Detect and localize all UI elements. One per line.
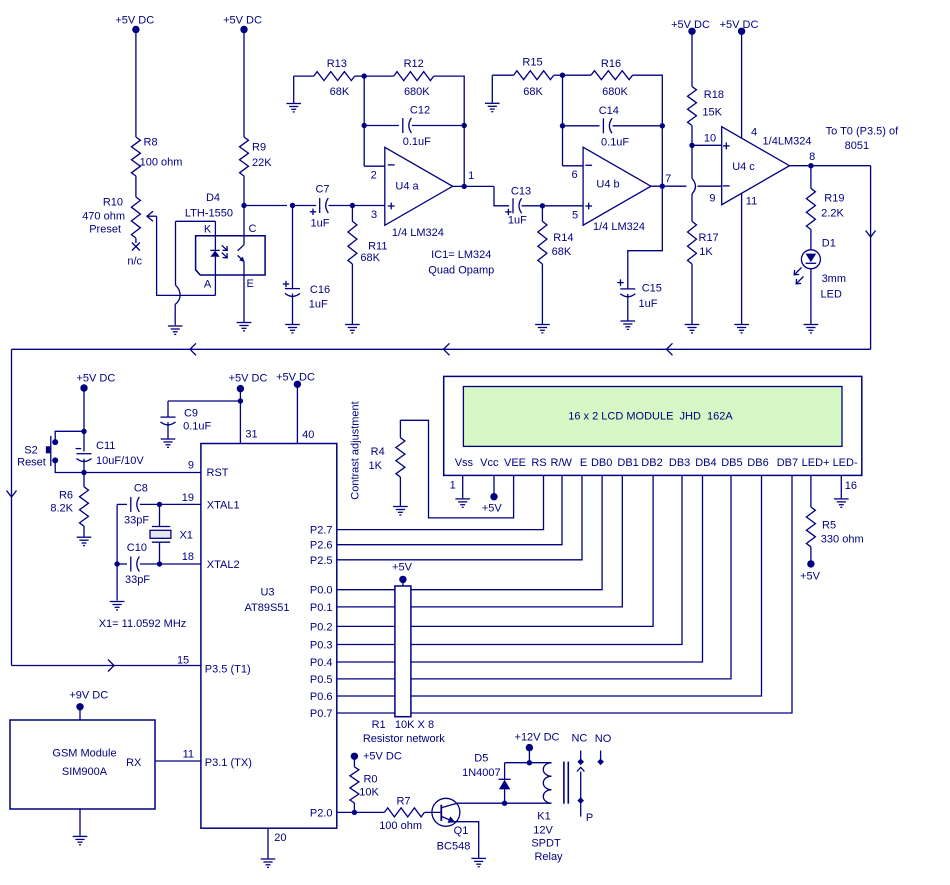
svg-text:+5V: +5V (800, 571, 821, 583)
relay K1 coil bottom wire (505, 802, 552, 804)
svg-text:U4 b: U4 b (596, 179, 619, 191)
ground C8/C10 (110, 601, 125, 603)
wire C8 left down to ground (116, 504, 118, 600)
D4 phototransistor (243, 206, 245, 245)
svg-text:P2.0: P2.0 (310, 807, 333, 819)
svg-text:68K: 68K (552, 246, 572, 258)
wire GSM RX to P3.1 (155, 760, 201, 762)
junction P2.0/R0 (352, 810, 357, 815)
wire DB1 to P0.1 (337, 475, 623, 607)
op-amp U4b (583, 147, 651, 225)
transistor Q1 (432, 798, 460, 826)
D4 outer loop top (176, 220, 216, 222)
wire DB4 to P0.4 (337, 475, 703, 662)
svg-text:4: 4 (751, 126, 757, 138)
ground GSM (73, 835, 88, 837)
svg-text:1uF: 1uF (639, 298, 658, 310)
capacitor C14 (563, 125, 600, 127)
wire C14 right down to output (661, 126, 663, 186)
svg-text:DB1: DB1 (617, 457, 638, 469)
svg-text:R5: R5 (822, 519, 836, 531)
svg-text:68K: 68K (360, 252, 380, 264)
Q1 collector wire (457, 802, 505, 804)
svg-text:1K: 1K (699, 246, 713, 258)
svg-text:R10: R10 (103, 197, 123, 209)
resistor R9 (240, 137, 249, 176)
U4a output wire (453, 185, 494, 187)
svg-text:SIM900A: SIM900A (62, 766, 108, 778)
svg-text:680K: 680K (602, 86, 628, 98)
wire C16 to C7 (293, 205, 317, 207)
svg-text:R8: R8 (144, 137, 158, 149)
svg-text:+5V DC: +5V DC (363, 751, 402, 763)
wire S2 bottom to RST node (55, 460, 84, 472)
svg-text:RX: RX (126, 757, 142, 769)
ground Q1 emitter (471, 857, 486, 859)
svg-text:D5: D5 (474, 753, 488, 765)
wire to switch S2 top (55, 431, 84, 442)
wire wiper to D4 loop (157, 216, 216, 295)
svg-text:DB7: DB7 (777, 457, 798, 469)
wire C7 to R11 node (329, 205, 353, 207)
wire GSM box to ground (79, 809, 81, 836)
svg-text:C10: C10 (127, 542, 147, 554)
D4 emitter wire E (243, 262, 245, 323)
resistor R8 (131, 137, 140, 176)
wire RST node to U3 pin9 (84, 472, 201, 474)
wire +5V to pin40 (296, 384, 298, 443)
wire RS to P2.7 (337, 475, 544, 529)
wire R4 to ground (399, 477, 401, 506)
svg-text:P0.3: P0.3 (310, 640, 333, 652)
wire +9V to GSM box (79, 707, 81, 720)
svg-text:P0.4: P0.4 (310, 657, 333, 669)
svg-text:C16: C16 (310, 284, 330, 296)
svg-text:DB6: DB6 (747, 457, 768, 469)
U4b output junction (660, 184, 665, 189)
wire U4c output feedback right side down (870, 166, 872, 350)
wire R8 to R10 (135, 176, 137, 197)
svg-text:+5V: +5V (482, 503, 503, 515)
svg-text:33pF: 33pF (124, 514, 149, 526)
svg-text:P0.7: P0.7 (310, 708, 333, 720)
svg-text:6: 6 (571, 169, 577, 181)
wire DB2 to P0.2 (337, 475, 653, 626)
svg-text:0.1uF: 0.1uF (403, 136, 431, 148)
svg-text:P0.6: P0.6 (310, 691, 333, 703)
wire pin7 to U4c inverting input with hop (651, 185, 687, 187)
svg-text:+5V DC: +5V DC (115, 15, 154, 27)
capacitor C16 (292, 206, 294, 289)
wire R5 to +5V (810, 547, 812, 564)
svg-text:R6: R6 (59, 490, 73, 502)
junction C12 right (462, 123, 467, 128)
svg-text:K: K (204, 224, 212, 236)
svg-text:LED: LED (820, 288, 841, 300)
svg-text:R15: R15 (522, 57, 542, 69)
svg-text:9: 9 (188, 459, 194, 471)
svg-text:P2.6: P2.6 (310, 540, 333, 552)
svg-text:R17: R17 (699, 232, 719, 244)
ground C15 (621, 320, 636, 322)
resistor R17 (688, 221, 697, 264)
svg-text:2: 2 (371, 169, 377, 181)
svg-text:16: 16 (845, 480, 857, 492)
svg-text:C8: C8 (134, 482, 148, 494)
wire +12V to coil top (528, 748, 530, 763)
junction R18/R17 node (689, 143, 694, 148)
svg-text:R11: R11 (368, 240, 387, 252)
junction XTAL2 (157, 561, 162, 566)
svg-text:3mm: 3mm (822, 273, 846, 285)
svg-text:10K: 10K (359, 786, 379, 798)
svg-text:330 ohm: 330 ohm (821, 534, 864, 546)
LCD LED+ wire (810, 475, 812, 507)
svg-text:40: 40 (302, 429, 314, 441)
svg-text:10uF/10V: 10uF/10V (96, 455, 144, 467)
junction RST node (81, 470, 86, 475)
svg-text:U3: U3 (260, 586, 274, 598)
svg-text:P: P (586, 812, 593, 824)
svg-text:68K: 68K (523, 86, 543, 98)
svg-text:IC1= LM324: IC1= LM324 (431, 249, 491, 261)
resistor R7 (384, 808, 424, 817)
wire into P3.5 pin 15 (12, 665, 201, 667)
svg-text:Preset: Preset (89, 224, 121, 236)
svg-text:12V: 12V (533, 824, 553, 836)
resistor R10 preset (131, 197, 140, 238)
svg-text:D4: D4 (206, 192, 220, 204)
wire inverting input net U4b (562, 75, 564, 166)
relay core bars (563, 762, 565, 804)
ground D4 emitter (237, 322, 252, 324)
wire node to C16 (244, 205, 287, 207)
n/c X mark (132, 243, 140, 251)
svg-text:S2: S2 (24, 445, 37, 457)
svg-text:680K: 680K (404, 86, 430, 98)
ground pin20 (261, 858, 276, 860)
svg-text:Vcc: Vcc (480, 457, 499, 469)
capacitor C7 (319, 198, 321, 213)
junction R13/R12 (355, 75, 365, 77)
svg-text:R0: R0 (363, 774, 377, 786)
wire R16 right (633, 75, 663, 126)
wire R0 to P2.0 node (353, 803, 355, 812)
svg-text:0.1uF: 0.1uF (601, 137, 629, 149)
svg-text:K1: K1 (537, 810, 550, 822)
svg-text:1uF: 1uF (309, 299, 328, 311)
ground D1 (804, 324, 819, 326)
resistor R19 (810, 166, 812, 189)
svg-text:+5V: +5V (392, 562, 413, 574)
capacitor C9 branch (168, 400, 240, 402)
resistor R4 (396, 438, 405, 477)
svg-text:1: 1 (468, 170, 474, 182)
svg-text:P3.5 (T1): P3.5 (T1) (205, 663, 251, 675)
junction XTAL1 (157, 502, 162, 507)
wire node down with hop over pin7 wire (691, 145, 693, 178)
resistor R0 (353, 756, 355, 767)
svg-text:Relay: Relay (534, 851, 563, 863)
resistor R13 (294, 75, 314, 77)
junction C12 left (362, 123, 367, 128)
resistor R5 (806, 507, 815, 547)
wire R12 right (434, 76, 465, 125)
ground R15 (485, 102, 500, 104)
svg-text:5: 5 (572, 210, 578, 222)
svg-text:7: 7 (665, 173, 671, 185)
wire +5V to pin31 (239, 389, 241, 444)
svg-text:+5V DC: +5V DC (76, 372, 115, 384)
U4c pin11 wire to ground (741, 194, 743, 325)
svg-text:1/4LM324: 1/4LM324 (763, 135, 812, 147)
Q1 emitter wire to ground (454, 822, 479, 858)
junction +12V node (527, 760, 532, 765)
ground C9 (161, 438, 176, 440)
svg-text:9: 9 (709, 193, 715, 205)
svg-text:C: C (249, 223, 257, 235)
ground R4 (393, 506, 408, 508)
svg-text:11: 11 (746, 196, 757, 208)
U4c output wire (790, 165, 871, 167)
svg-text:11: 11 (183, 748, 194, 760)
svg-text:16 x 2 LCD MODULE JHD 162A: 16 x 2 LCD MODULE JHD 162A (568, 411, 733, 423)
wire node to U4b pin5 (542, 205, 583, 207)
svg-text:DB5: DB5 (721, 457, 742, 469)
wire DB7 to P0.7 (337, 475, 792, 713)
ground R11 (345, 324, 360, 326)
wire C15 branch (628, 186, 663, 288)
resistor R18 (688, 87, 697, 126)
wire C12 right to output node (463, 126, 465, 187)
svg-text:n/c: n/c (127, 256, 142, 268)
wire DB0 to P0.0 (337, 475, 602, 589)
ground U4c pin11 (734, 324, 749, 326)
svg-text:10K X 8: 10K X 8 (395, 719, 434, 731)
LCD module box (444, 376, 862, 475)
svg-text:RS: RS (531, 457, 546, 469)
svg-text:19: 19 (182, 492, 194, 504)
LCD green screen (463, 387, 842, 447)
junction R11 top (350, 203, 355, 208)
svg-text:P3.1 (TX): P3.1 (TX) (205, 757, 252, 769)
svg-text:1/4 LM324: 1/4 LM324 (392, 227, 444, 239)
D4 loop left wire with crossover wiggle (175, 221, 177, 285)
svg-text:P2.5: P2.5 (310, 555, 333, 567)
svg-text:XTAL1: XTAL1 (207, 500, 240, 512)
optocoupler D4 body (196, 236, 266, 275)
wire P2.0 (337, 811, 385, 813)
wire R/W to P2.6 (337, 475, 562, 544)
resistor R11 (351, 206, 353, 222)
D1 light arrows (795, 268, 802, 275)
svg-text:15: 15 (177, 654, 189, 666)
svg-text:1N4007: 1N4007 (462, 767, 501, 779)
svg-text:C15: C15 (642, 283, 662, 295)
wire R9 to node (243, 176, 245, 206)
relay K1 coil (543, 763, 551, 804)
svg-text:1K: 1K (369, 460, 383, 472)
svg-text:NO: NO (595, 733, 612, 745)
ground R14 (535, 324, 550, 326)
wire R17 to ground (691, 264, 693, 324)
svg-text:8: 8 (809, 151, 815, 163)
junction D5 anode (502, 801, 507, 806)
R1 +5V pin (399, 576, 406, 583)
capacitor C13 (512, 198, 514, 213)
svg-text:DB2: DB2 (641, 457, 662, 469)
svg-text:+5V DC: +5V DC (223, 15, 262, 27)
svg-text:3: 3 (371, 209, 377, 221)
LCD LED- to ground (840, 475, 842, 498)
svg-text:C12: C12 (410, 105, 430, 117)
junction C11 top (81, 429, 86, 434)
D4 light arrows (222, 245, 227, 250)
svg-text:C13: C13 (511, 185, 531, 197)
GSM module box (10, 720, 155, 809)
svg-text:SPDT: SPDT (531, 837, 561, 849)
junction R14 top (540, 203, 545, 208)
resistor R6 (83, 473, 85, 487)
capacitor C10 (117, 563, 127, 565)
svg-text:C9: C9 (184, 408, 198, 420)
capacitor C15 (620, 288, 635, 290)
junction C14 left (560, 123, 565, 128)
wire R11 to ground (351, 264, 353, 324)
wire DB5 to P0.5 (337, 475, 731, 679)
svg-text:1uF: 1uF (508, 215, 527, 227)
svg-text:P0.2: P0.2 (310, 621, 333, 633)
svg-text:1uF: 1uF (311, 218, 330, 230)
LED D1 (801, 250, 820, 269)
svg-text:0.1uF: 0.1uF (183, 420, 211, 432)
wire R18 to node (691, 126, 693, 146)
svg-text:R9: R9 (252, 142, 266, 154)
D4 LED cathode wire K (214, 221, 216, 250)
svg-text:DB4: DB4 (695, 457, 716, 469)
svg-text:BC548: BC548 (437, 841, 471, 853)
svg-text:22K: 22K (252, 157, 272, 169)
svg-text:R14: R14 (553, 232, 573, 244)
wire +5V to U4c pin4 (741, 31, 743, 138)
svg-text:C7: C7 (315, 183, 329, 195)
svg-text:1: 1 (450, 480, 456, 492)
ground C16 (285, 324, 300, 326)
op-amp U4c (722, 127, 790, 205)
svg-text:DB3: DB3 (669, 457, 690, 469)
microcontroller U3 box (201, 444, 337, 829)
wire +5V to R8 (135, 30, 137, 138)
wire DB6 to P0.6 (337, 475, 762, 696)
svg-text:+9V DC: +9V DC (69, 689, 108, 701)
ground LED- (834, 498, 849, 500)
resistor network R1 (395, 586, 411, 717)
svg-text:U4 a: U4 a (395, 181, 419, 193)
svg-text:To T0 (P3.5) of: To T0 (P3.5) of (826, 125, 899, 137)
svg-text:2.2K: 2.2K (821, 208, 844, 220)
diode D5 (504, 763, 506, 780)
wire node to U4c pin10 (692, 144, 722, 146)
svg-text:R/W: R/W (551, 457, 573, 469)
ground Vss (455, 498, 470, 500)
relay pole with arrow (580, 772, 582, 799)
resistor R12 (364, 75, 394, 77)
junction C16 top (290, 203, 295, 208)
wire inverting input net U4a (363, 76, 365, 166)
D4 LED (210, 249, 219, 251)
wire C8 to XTAL1 (140, 503, 201, 505)
LCD Vcc to +5V (493, 475, 495, 496)
svg-text:AT89S51: AT89S51 (244, 602, 289, 614)
svg-text:D1: D1 (822, 238, 836, 250)
svg-text:VEE: VEE (504, 457, 526, 469)
svg-text:R1: R1 (372, 719, 386, 731)
svg-text:1/4 LM324: 1/4 LM324 (593, 221, 645, 233)
resistor R14 (541, 206, 543, 222)
wire DB3 to P0.3 (337, 475, 682, 644)
capacitor C11 (83, 431, 85, 451)
svg-text:E: E (247, 278, 254, 290)
wire E to P2.5 (337, 475, 582, 559)
capacitor C12 (364, 125, 399, 127)
resistor R16 (563, 74, 592, 76)
svg-text:X1= 11.0592 MHz: X1= 11.0592 MHz (99, 618, 187, 630)
wire +5V to R9 (243, 30, 245, 138)
junction C9 (238, 398, 243, 403)
long feedback wire to T0 (12, 348, 871, 350)
svg-text:Contrast adjustment: Contrast adjustment (350, 401, 362, 499)
svg-text:8051: 8051 (845, 140, 869, 152)
svg-text:Q1: Q1 (454, 825, 469, 837)
svg-text:LED-: LED- (833, 457, 858, 469)
svg-text:E: E (580, 457, 587, 469)
svg-text:P0.5: P0.5 (310, 674, 333, 686)
svg-text:R19: R19 (824, 192, 844, 204)
power +5V DC (R0) (351, 753, 358, 760)
svg-text:XTAL2: XTAL2 (207, 559, 240, 571)
svg-text:LED+: LED+ (802, 457, 830, 469)
switch S2 (52, 439, 58, 445)
svg-text:LTH-1550: LTH-1550 (185, 208, 233, 220)
svg-text:X1: X1 (179, 530, 192, 542)
LCD pin1 Vss to ground (462, 475, 464, 498)
svg-text:20: 20 (274, 832, 286, 844)
svg-text:R18: R18 (704, 89, 724, 101)
resistor R15 (492, 74, 513, 76)
svg-text:470 ohm: 470 ohm (82, 211, 125, 223)
crystal X1 (159, 504, 161, 526)
wire +5V down to C11 node (83, 388, 85, 431)
relay K1 coil top wire (505, 762, 552, 764)
ground R13 (286, 103, 301, 105)
svg-text:+12V DC: +12V DC (515, 732, 560, 744)
svg-text:31: 31 (245, 428, 257, 440)
R10 wiper arrow (148, 215, 157, 217)
wire D1 to ground (810, 269, 812, 324)
svg-text:100 ohm: 100 ohm (379, 820, 422, 832)
wire R7 to Q1 base (424, 811, 441, 813)
svg-text:RST: RST (207, 467, 229, 479)
junction node R9/C7 (241, 203, 246, 208)
wire U4a output to C13 (494, 186, 509, 205)
svg-text:DB0: DB0 (591, 457, 612, 469)
wire pin20 to ground (267, 828, 269, 858)
wire C13 to R14 node (522, 205, 543, 207)
wire +5V to R18 (691, 31, 693, 86)
svg-text:P0.0: P0.0 (310, 585, 333, 597)
svg-text:8.2K: 8.2K (50, 503, 73, 515)
junction R15/R16 (554, 74, 563, 76)
